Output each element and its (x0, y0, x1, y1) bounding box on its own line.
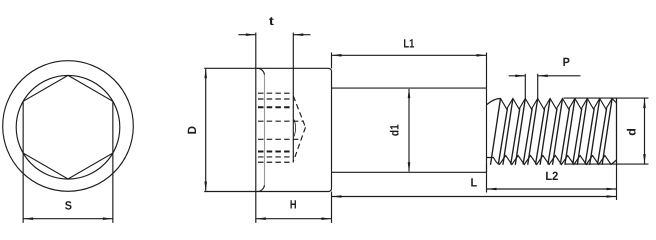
svg-text:S: S (65, 198, 72, 212)
svg-text:L: L (470, 176, 477, 190)
svg-text:L2: L2 (545, 169, 558, 183)
svg-text:D: D (185, 126, 199, 135)
svg-text:L1: L1 (403, 37, 414, 51)
svg-text:t: t (269, 14, 274, 28)
svg-text:H: H (290, 198, 297, 212)
svg-text:d: d (624, 128, 638, 136)
svg-text:P: P (563, 55, 570, 69)
svg-text:d1: d1 (388, 124, 402, 136)
